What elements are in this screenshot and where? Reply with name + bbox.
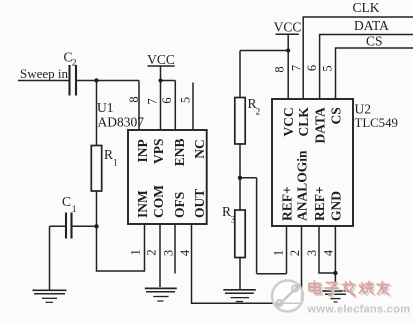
svg-text:VCC: VCC — [281, 107, 296, 136]
wire R2/R3 junction to U2 pin1 — [240, 178, 287, 274]
wire VCC to U1 pin 7 — [148, 65, 175, 67]
svg-text:3: 3 — [305, 250, 319, 256]
svg-text:CS: CS — [366, 33, 383, 48]
svg-text:VCC: VCC — [147, 52, 175, 67]
svg-text:DATA: DATA — [354, 18, 389, 33]
capacitor C1 — [66, 213, 72, 239]
wire U1 pin4 OUT to U2 pin2 — [192, 224, 302, 303]
wire R2 bottom — [239, 144, 241, 178]
resistor R2 — [235, 98, 245, 145]
wire R2 top rail — [240, 51, 288, 98]
svg-text:COM: COM — [151, 185, 166, 218]
svg-text:U2: U2 — [355, 102, 372, 117]
wire U1 pin2 to ground — [159, 224, 161, 287]
junction node VCC/pin7 — [159, 79, 163, 83]
watermark chinese text 电子发烧友 (drawn strokes, gray ghost + light red) — [309, 281, 391, 297]
svg-text:6: 6 — [160, 97, 174, 103]
junction node R2/R3 — [238, 176, 242, 180]
junction node U2 pin3/pin4 — [333, 271, 337, 275]
svg-text:7: 7 — [290, 65, 304, 71]
svg-text:8: 8 — [127, 96, 141, 102]
svg-text:3: 3 — [161, 250, 175, 256]
svg-text:2: 2 — [145, 249, 159, 255]
svg-text:ANALOGin: ANALOGin — [294, 150, 309, 221]
svg-text:3: 3 — [231, 216, 236, 226]
svg-text:5: 5 — [321, 65, 335, 71]
wire U2 pin6 DATA — [320, 35, 413, 100]
junction node C1/R1 — [94, 224, 98, 228]
svg-text:VCC: VCC — [274, 20, 302, 35]
svg-text:Sweep in: Sweep in — [20, 66, 69, 81]
svg-text:CLK: CLK — [296, 107, 311, 137]
IC U2 TLC549 box — [272, 99, 353, 226]
svg-text:4: 4 — [322, 249, 336, 256]
wire U1 pin3 stub — [174, 224, 176, 274]
svg-text:REF+: REF+ — [279, 186, 294, 221]
wire VCC branch to U1 pin 6 — [161, 81, 176, 131]
resistor R1 — [91, 146, 101, 192]
watermark logo circle — [272, 281, 303, 312]
wire C1 plates — [50, 225, 97, 227]
ground R3 — [223, 289, 256, 291]
svg-text:6: 6 — [305, 65, 319, 71]
svg-text:4: 4 — [178, 249, 192, 256]
wire U2 pin3 to pin4 — [319, 226, 335, 273]
wire R3 to ground — [239, 258, 241, 290]
svg-text:8: 8 — [273, 66, 287, 72]
wire U2 pin4 to ground — [334, 226, 336, 290]
wire U1 pin 5 stub — [192, 83, 194, 131]
svg-text:DATA: DATA — [312, 107, 327, 143]
svg-text:www.elecfans.com: www.elecfans.com — [307, 304, 411, 316]
wire R1 top — [96, 81, 98, 146]
svg-text:1: 1 — [72, 205, 77, 215]
wire C1 to ground — [49, 226, 51, 289]
svg-text:NC: NC — [192, 139, 207, 159]
svg-text:1: 1 — [113, 159, 118, 169]
wire C2 to U1 pin 8 — [76, 81, 139, 131]
svg-text:OFS: OFS — [172, 192, 187, 218]
svg-text:REF+: REF+ — [312, 186, 327, 221]
svg-text:OUT: OUT — [192, 189, 207, 218]
svg-text:1: 1 — [129, 249, 143, 255]
svg-text:INP: INP — [135, 139, 150, 162]
svg-text:2: 2 — [256, 108, 261, 118]
capacitor C2 — [70, 65, 77, 96]
wire U2 pin5 CS — [336, 48, 413, 99]
svg-text:VPS: VPS — [151, 139, 166, 165]
svg-text:GND: GND — [328, 191, 343, 221]
wire R1 bottom to U1 pin 1 — [97, 191, 145, 271]
wire VCC2 to U2 pin8 — [276, 34, 299, 99]
svg-text:TLC549: TLC549 — [355, 116, 398, 130]
svg-text:CLK: CLK — [353, 0, 380, 15]
wire U2 pin7 CLK — [303, 17, 413, 99]
svg-text:2: 2 — [288, 250, 302, 256]
op-amp U1 AD8307 box — [128, 130, 207, 224]
svg-text:R: R — [104, 147, 113, 162]
svg-text:AD8307: AD8307 — [98, 115, 145, 130]
svg-text:ENB: ENB — [172, 139, 187, 167]
svg-text:1: 1 — [272, 250, 286, 256]
ground U1 pin2 — [145, 287, 177, 289]
svg-text:7: 7 — [146, 98, 160, 104]
ground C1 — [33, 289, 67, 291]
wire R3 top — [239, 178, 241, 210]
svg-text:5: 5 — [178, 97, 192, 103]
wire sweep input — [18, 80, 70, 82]
resistor R3 — [235, 210, 245, 258]
svg-text:CS: CS — [328, 107, 343, 124]
svg-text:C: C — [62, 194, 71, 209]
svg-text:2: 2 — [72, 59, 77, 69]
svg-text:U1: U1 — [97, 100, 114, 115]
svg-text:INM: INM — [135, 190, 150, 218]
ground U2 pin4 — [322, 290, 349, 292]
junction node VCC2/pin8 — [286, 49, 290, 53]
junction node C2/R1 — [94, 78, 98, 82]
